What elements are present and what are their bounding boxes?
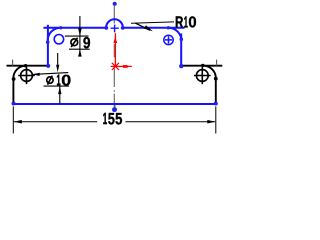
hole circle d9 top-left: [54, 35, 63, 44]
hole circle d10 bottom-left with center cross: [18, 67, 35, 84]
dim 155 extension line left: [12, 106, 14, 133]
dim 155 line right segment: [126, 121, 216, 123]
tangent dot left fillet bottom: [12, 77, 16, 81]
dim d10 underline: [44, 85, 70, 87]
tangent dot right fillet bottom: [214, 77, 218, 81]
dim d10 diameter symbol: [47, 76, 53, 85]
notch end dot left: [104, 26, 108, 30]
left fillet: [13, 66, 25, 78]
notch end dot right: [121, 26, 125, 30]
notch center tick to point: [114, 105, 116, 108]
top edge right: [123, 27, 185, 29]
origin vertical axis red: [114, 33, 116, 66]
tangent dot right step: [180, 37, 184, 41]
tangent dot top-right fillet: [167, 26, 170, 29]
dim d10 down arrow: [56, 65, 59, 73]
dim d9 shoulder line: [69, 48, 90, 50]
dim d9 diameter symbol: [71, 38, 78, 47]
tangent dot left fillet top: [24, 64, 27, 67]
centerline bottom endpoint: [112, 107, 117, 112]
right virtual sharp tick: [216, 60, 218, 66]
dim d10 leader line: [32, 73, 68, 75]
left step top edge: [7, 65, 48, 67]
dim d9 up arrow: [78, 49, 82, 56]
top edge left: [44, 27, 107, 29]
dim 155 left arrowhead: [14, 120, 22, 124]
dim d10 leader arrow: [32, 73, 39, 76]
notch center mark blue cross: [111, 25, 119, 33]
right edge: [215, 78, 217, 104]
vertex dot bottom-left: [12, 102, 16, 106]
left step vertical edge: [47, 25, 49, 66]
origin up arrowhead: [113, 37, 117, 43]
top-right fillet R10: [168, 28, 181, 41]
dim d10 vertical tick: [57, 53, 59, 65]
left virtual sharp tick: [12, 60, 14, 66]
vertex dot step bottom right: [179, 64, 183, 68]
dim d9 down arrow: [78, 28, 82, 36]
dim d9 text: [83, 37, 90, 48]
dim 155 text: [103, 113, 122, 125]
dim d9 top gate tick: [65, 35, 89, 37]
hole circle top-right with center cross: [164, 35, 173, 44]
hole circle bottom-right with center cross: [194, 67, 211, 84]
dim R10 text: [176, 16, 196, 27]
dim d10 text: [57, 75, 71, 86]
dim d10 lower arrow line: [59, 86, 61, 104]
top-left fillet R10: [48, 28, 61, 41]
left edge: [12, 78, 14, 104]
dim R10 leader: [135, 23, 150, 30]
dim 155 right arrowhead: [207, 120, 215, 124]
vertex dot bottom-right: [214, 102, 218, 106]
dim 155 line left segment: [14, 121, 97, 123]
vertex dot step bottom left: [46, 64, 50, 68]
bottom edge: [13, 103, 215, 105]
tangent dot left step: [46, 40, 50, 44]
centerline top endpoint: [113, 2, 117, 6]
dim 155 extension line right: [215, 106, 217, 133]
dim d10 up arrow: [58, 86, 61, 94]
tangent dot top-left fillet: [59, 26, 62, 29]
right step vertical edge: [180, 34, 182, 66]
dim R10 arrowhead: [144, 25, 153, 31]
origin right arrowhead: [123, 65, 128, 68]
centerline (gray dash-dot construction line): [113, 6, 115, 107]
dim R10 shoulder: [131, 22, 174, 23]
semicircular notch: [106, 19, 123, 27]
origin horizontal axis red: [111, 65, 132, 67]
tangent dot right fillet top: [201, 64, 204, 67]
origin X mark: [112, 63, 119, 70]
right fillet: [203, 66, 215, 78]
dim d9 vertical line: [79, 16, 81, 56]
right step top edge: [181, 65, 222, 67]
